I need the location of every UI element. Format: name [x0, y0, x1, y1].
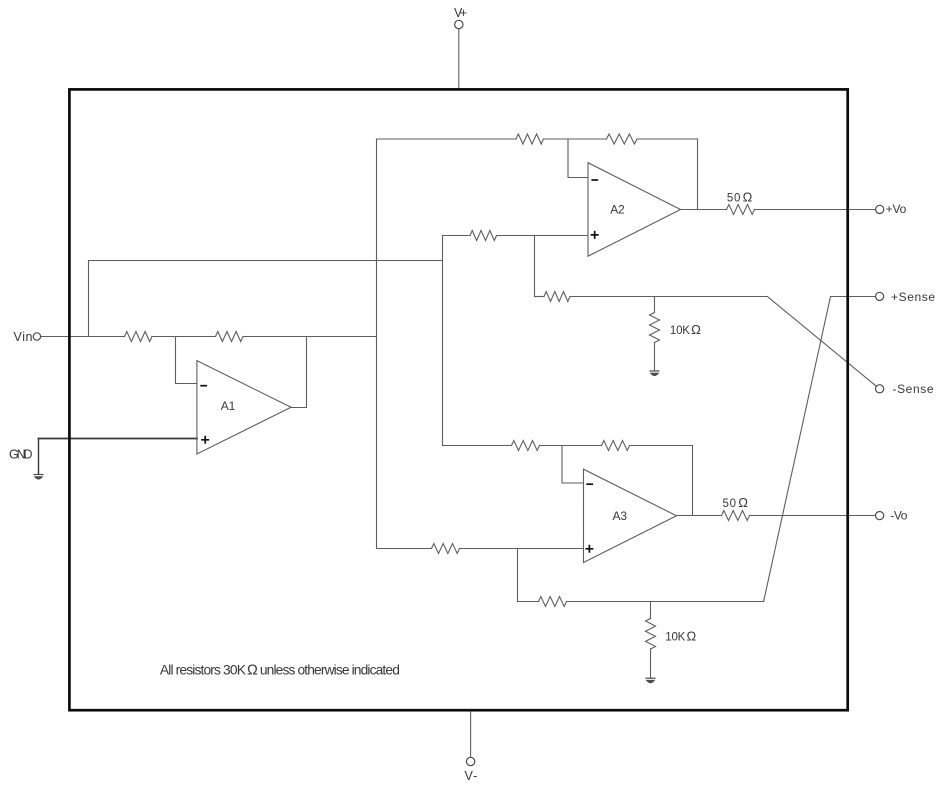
svg-text:All resistors 30KΩunless other: All resistors 30KΩunless otherwise indic… [160, 662, 400, 678]
svg-text:Vin: Vin [14, 330, 33, 344]
svg-text:A1: A1 [221, 399, 236, 413]
svg-text:A3: A3 [613, 509, 628, 523]
svg-text:V+: V+ [454, 6, 467, 20]
svg-text:+Sense: +Sense [891, 290, 935, 304]
svg-text:A2: A2 [610, 203, 625, 217]
svg-text:10KΩ: 10KΩ [670, 322, 701, 337]
svg-text:-Vo: -Vo [890, 509, 907, 523]
svg-text:+Vo: +Vo [886, 202, 907, 216]
svg-text:10KΩ: 10KΩ [665, 628, 696, 643]
svg-text:-Sense: -Sense [893, 382, 934, 396]
svg-text:V-: V- [465, 769, 478, 783]
svg-text:GND: GND [9, 448, 33, 462]
svg-text:50Ω: 50Ω [727, 189, 753, 204]
svg-text:50Ω: 50Ω [723, 495, 749, 510]
